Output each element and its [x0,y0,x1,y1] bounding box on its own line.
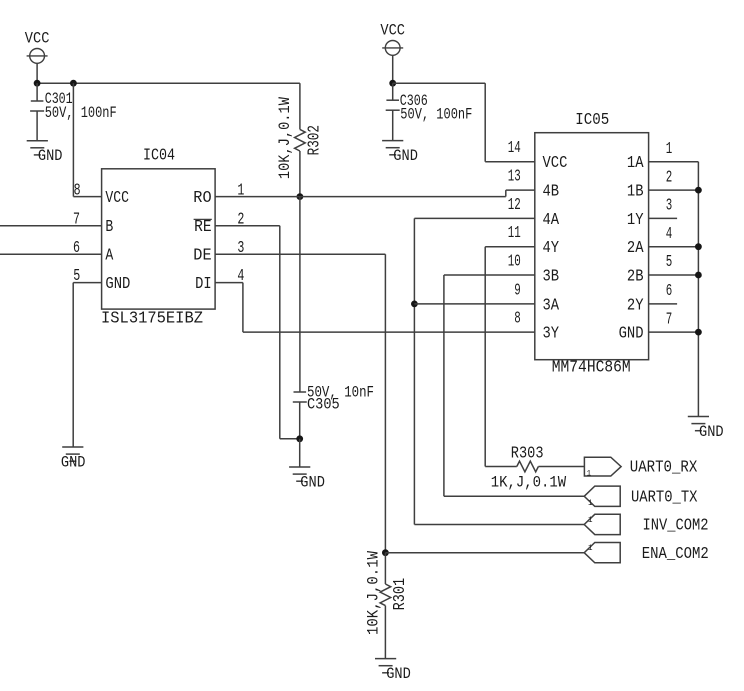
junction pin 4 rail [695,243,702,250]
svg-text:14: 14 [508,138,521,157]
wire 3B from IC05 pin 10 [444,274,535,276]
svg-text:5: 5 [666,252,673,271]
svg-text:11: 11 [508,223,521,242]
wire 3A into IC05 pin 9 [414,303,534,305]
wire 3B vertical to UART0_TX [443,275,445,496]
svg-text:3A: 3A [543,296,560,315]
svg-text:GND: GND [61,454,86,472]
wire IC05 pin 6 stub (2Y) [649,303,678,305]
power flag VCC (right) [380,22,405,56]
svg-text:4A: 4A [543,211,560,230]
wire 4A/3A/INV_COM2 vertical [413,218,415,524]
wire right rail down to ground [697,162,699,417]
wire input B from left edge [0,225,102,227]
resistor R301 body [380,584,391,606]
ground GND (under C301) [27,141,63,166]
wire R301 top lead [384,553,386,584]
svg-text:2B: 2B [627,267,644,286]
wire INV_COM2 horizontal [414,524,584,526]
logic gate IC05 box [535,133,649,360]
svg-text:GND: GND [393,147,418,165]
junction R302 to RO net [297,193,304,200]
wire DI to IC05 pin 8 (3Y) [243,331,535,333]
svg-text:GND: GND [386,665,411,683]
svg-text:GND: GND [619,325,644,344]
svg-text:VCC: VCC [25,30,50,48]
op-amp transceiver IC04 box [102,169,216,309]
wire C305 bottom lead [299,402,301,439]
wire IC05 pin 7 (GND) [649,331,699,333]
svg-text:8: 8 [514,309,521,328]
wire DI from IC04 pin 4 [215,282,243,284]
wire from RO junction down to C305 [299,197,301,392]
wire C306 bottom lead [392,110,394,140]
ground GND (under IC04) [61,447,86,472]
wire RE from IC04 pin 2 [215,225,280,227]
svg-text:GND: GND [105,275,130,294]
wire IC05 pin 3 stub (1Y) [649,217,678,219]
wire DE vertical drop to ENA_COM2 row [384,254,386,553]
wire top rail right [393,82,486,84]
svg-text:3: 3 [666,196,673,215]
svg-text:A: A [105,247,114,266]
wire RE vertical drop [279,226,281,439]
power flag VCC (left) [25,30,50,64]
svg-text:50V, 100nF: 50V, 100nF [45,104,117,122]
svg-text:50V, 100nF: 50V, 100nF [400,105,472,123]
resistor R302 body [295,129,306,151]
svg-text:10: 10 [508,252,521,271]
wire IC05 pin 4 (2A) [649,246,699,248]
svg-text:VCC: VCC [105,189,129,208]
svg-text:10K,J,0.1W: 10K,J,0.1W [276,96,294,179]
wire IC05 pin 5 (2B) [649,274,699,276]
wire R302 bottom lead [299,151,301,197]
svg-text:1: 1 [588,543,593,553]
junction at C301 tap [34,80,41,87]
svg-text:1: 1 [587,469,592,479]
wire 4Y from IC05 pin 11 [485,246,535,248]
wire IC05 pin 2 (1B) [649,189,699,191]
svg-text:3B: 3B [543,267,560,286]
junction 3A tap [411,301,418,308]
svg-text:2: 2 [666,167,673,186]
svg-text:1: 1 [588,515,593,525]
svg-text:4B: 4B [543,183,560,202]
wire C301 bottom lead [36,111,38,141]
wire R303 right lead [538,466,584,468]
junction at IC04 VCC tap [70,80,77,87]
wire input A from left edge [0,253,102,255]
wire IC04 pin 8 stub [73,196,101,198]
svg-text:13: 13 [508,167,521,186]
svg-text:ISL3175EIBZ: ISL3175EIBZ [101,310,203,329]
svg-text:R303: R303 [511,445,544,464]
svg-text:UART0_RX: UART0_RX [630,459,698,478]
connector flag INV_COM2 [584,514,620,534]
capacitor C306 plates [386,100,400,110]
wire down to IC04 pin 8 [72,83,74,196]
connector flag UART0_TX [584,486,620,508]
svg-text:RO: RO [193,189,211,208]
svg-text:7: 7 [666,309,673,328]
svg-text:MM74HC86M: MM74HC86M [552,359,631,378]
wire VCC right drop [392,55,394,83]
wire DE from IC04 pin 3 [215,253,385,255]
wire ENA_COM2 horizontal [385,552,584,554]
wire UART0_TX horizontal [444,495,584,497]
wire top rail left (VCC to R302) [37,82,300,84]
svg-text:INV_COM2: INV_COM2 [643,517,709,536]
wire R301 bottom lead [384,606,386,659]
wire VCC left drop [36,63,38,83]
wire 4Y vertical to R303 [484,247,486,467]
svg-text:C305: C305 [307,395,340,413]
svg-text:4: 4 [666,224,673,243]
svg-text:9: 9 [514,280,521,299]
wire junction to ground [299,439,301,467]
junction DE / ENA_COM2 / R301 [382,549,389,556]
svg-text:GND: GND [38,147,63,165]
junction pin 7 rail [695,329,702,336]
svg-text:10K,J,0.1W: 10K,J,0.1W [364,550,382,635]
svg-text:1K,J,0.1W: 1K,J,0.1W [491,473,567,491]
junction pin 5 rail [695,272,702,279]
wire C301 top lead [36,83,38,101]
svg-text:DE: DE [193,247,211,266]
svg-text:3Y: 3Y [543,325,560,344]
wire RE into ground junction [280,438,300,440]
svg-text:1B: 1B [627,183,644,202]
connector flag ENA_COM2 [584,543,620,563]
capacitor C301 plates [30,101,44,111]
svg-text:DI: DI [195,275,212,294]
ground GND (under C305) [289,467,325,492]
svg-text:12: 12 [508,195,521,214]
svg-text:8: 8 [74,180,81,199]
svg-text:1: 1 [588,498,593,508]
svg-text:R302: R302 [305,125,324,155]
svg-text:R301: R301 [391,578,410,611]
ground GND (right rail) [688,417,724,442]
wire RO to 4B [215,196,506,198]
wire into IC05 pin 14 [485,161,535,163]
svg-text:2Y: 2Y [627,296,644,315]
junction pin 2 rail [695,187,702,194]
svg-text:6: 6 [666,281,673,300]
wire IC05 pin 1 (1A) to right rail [649,161,699,163]
svg-text:1: 1 [666,139,673,158]
svg-text:1A: 1A [627,154,644,173]
wire down to IC05 pin 14 row [484,83,486,162]
svg-text:B: B [105,218,113,237]
wire IC04 GND drop [72,283,74,447]
ground GND (under R301) [375,659,411,684]
wire 4Y to R303 left lead [485,466,517,468]
svg-text:VCC: VCC [543,154,568,173]
wire R302 top lead [299,83,301,129]
svg-text:1Y: 1Y [627,211,644,230]
junction C305/RE/GND [296,435,303,442]
wire jog up at IC05 pin 13 [505,190,507,197]
wire 4A from IC05 pin 12 [414,217,534,219]
ground GND (under C306) [382,141,418,166]
capacitor C305 plates [293,392,307,402]
wire C306 top lead [392,83,394,100]
svg-text:4Y: 4Y [543,239,560,258]
svg-text:UART0_TX: UART0_TX [631,489,698,508]
svg-text:ENA_COM2: ENA_COM2 [642,545,709,564]
svg-text:VCC: VCC [380,22,405,40]
wire IC04 pin 5 stub [73,282,101,284]
svg-text:IC04: IC04 [143,147,175,166]
svg-text:GND: GND [300,474,325,492]
wire into IC05 pin 13 [506,189,535,191]
svg-text:IC05: IC05 [575,111,609,130]
junction at C306 tap [389,80,396,87]
svg-text:GND: GND [699,423,724,441]
svg-text:2A: 2A [627,239,644,258]
connector flag UART0_RX [584,457,621,478]
resistor R303 body [517,461,539,472]
wire DI vertical drop [242,283,244,333]
svg-text:RE: RE [194,218,212,237]
